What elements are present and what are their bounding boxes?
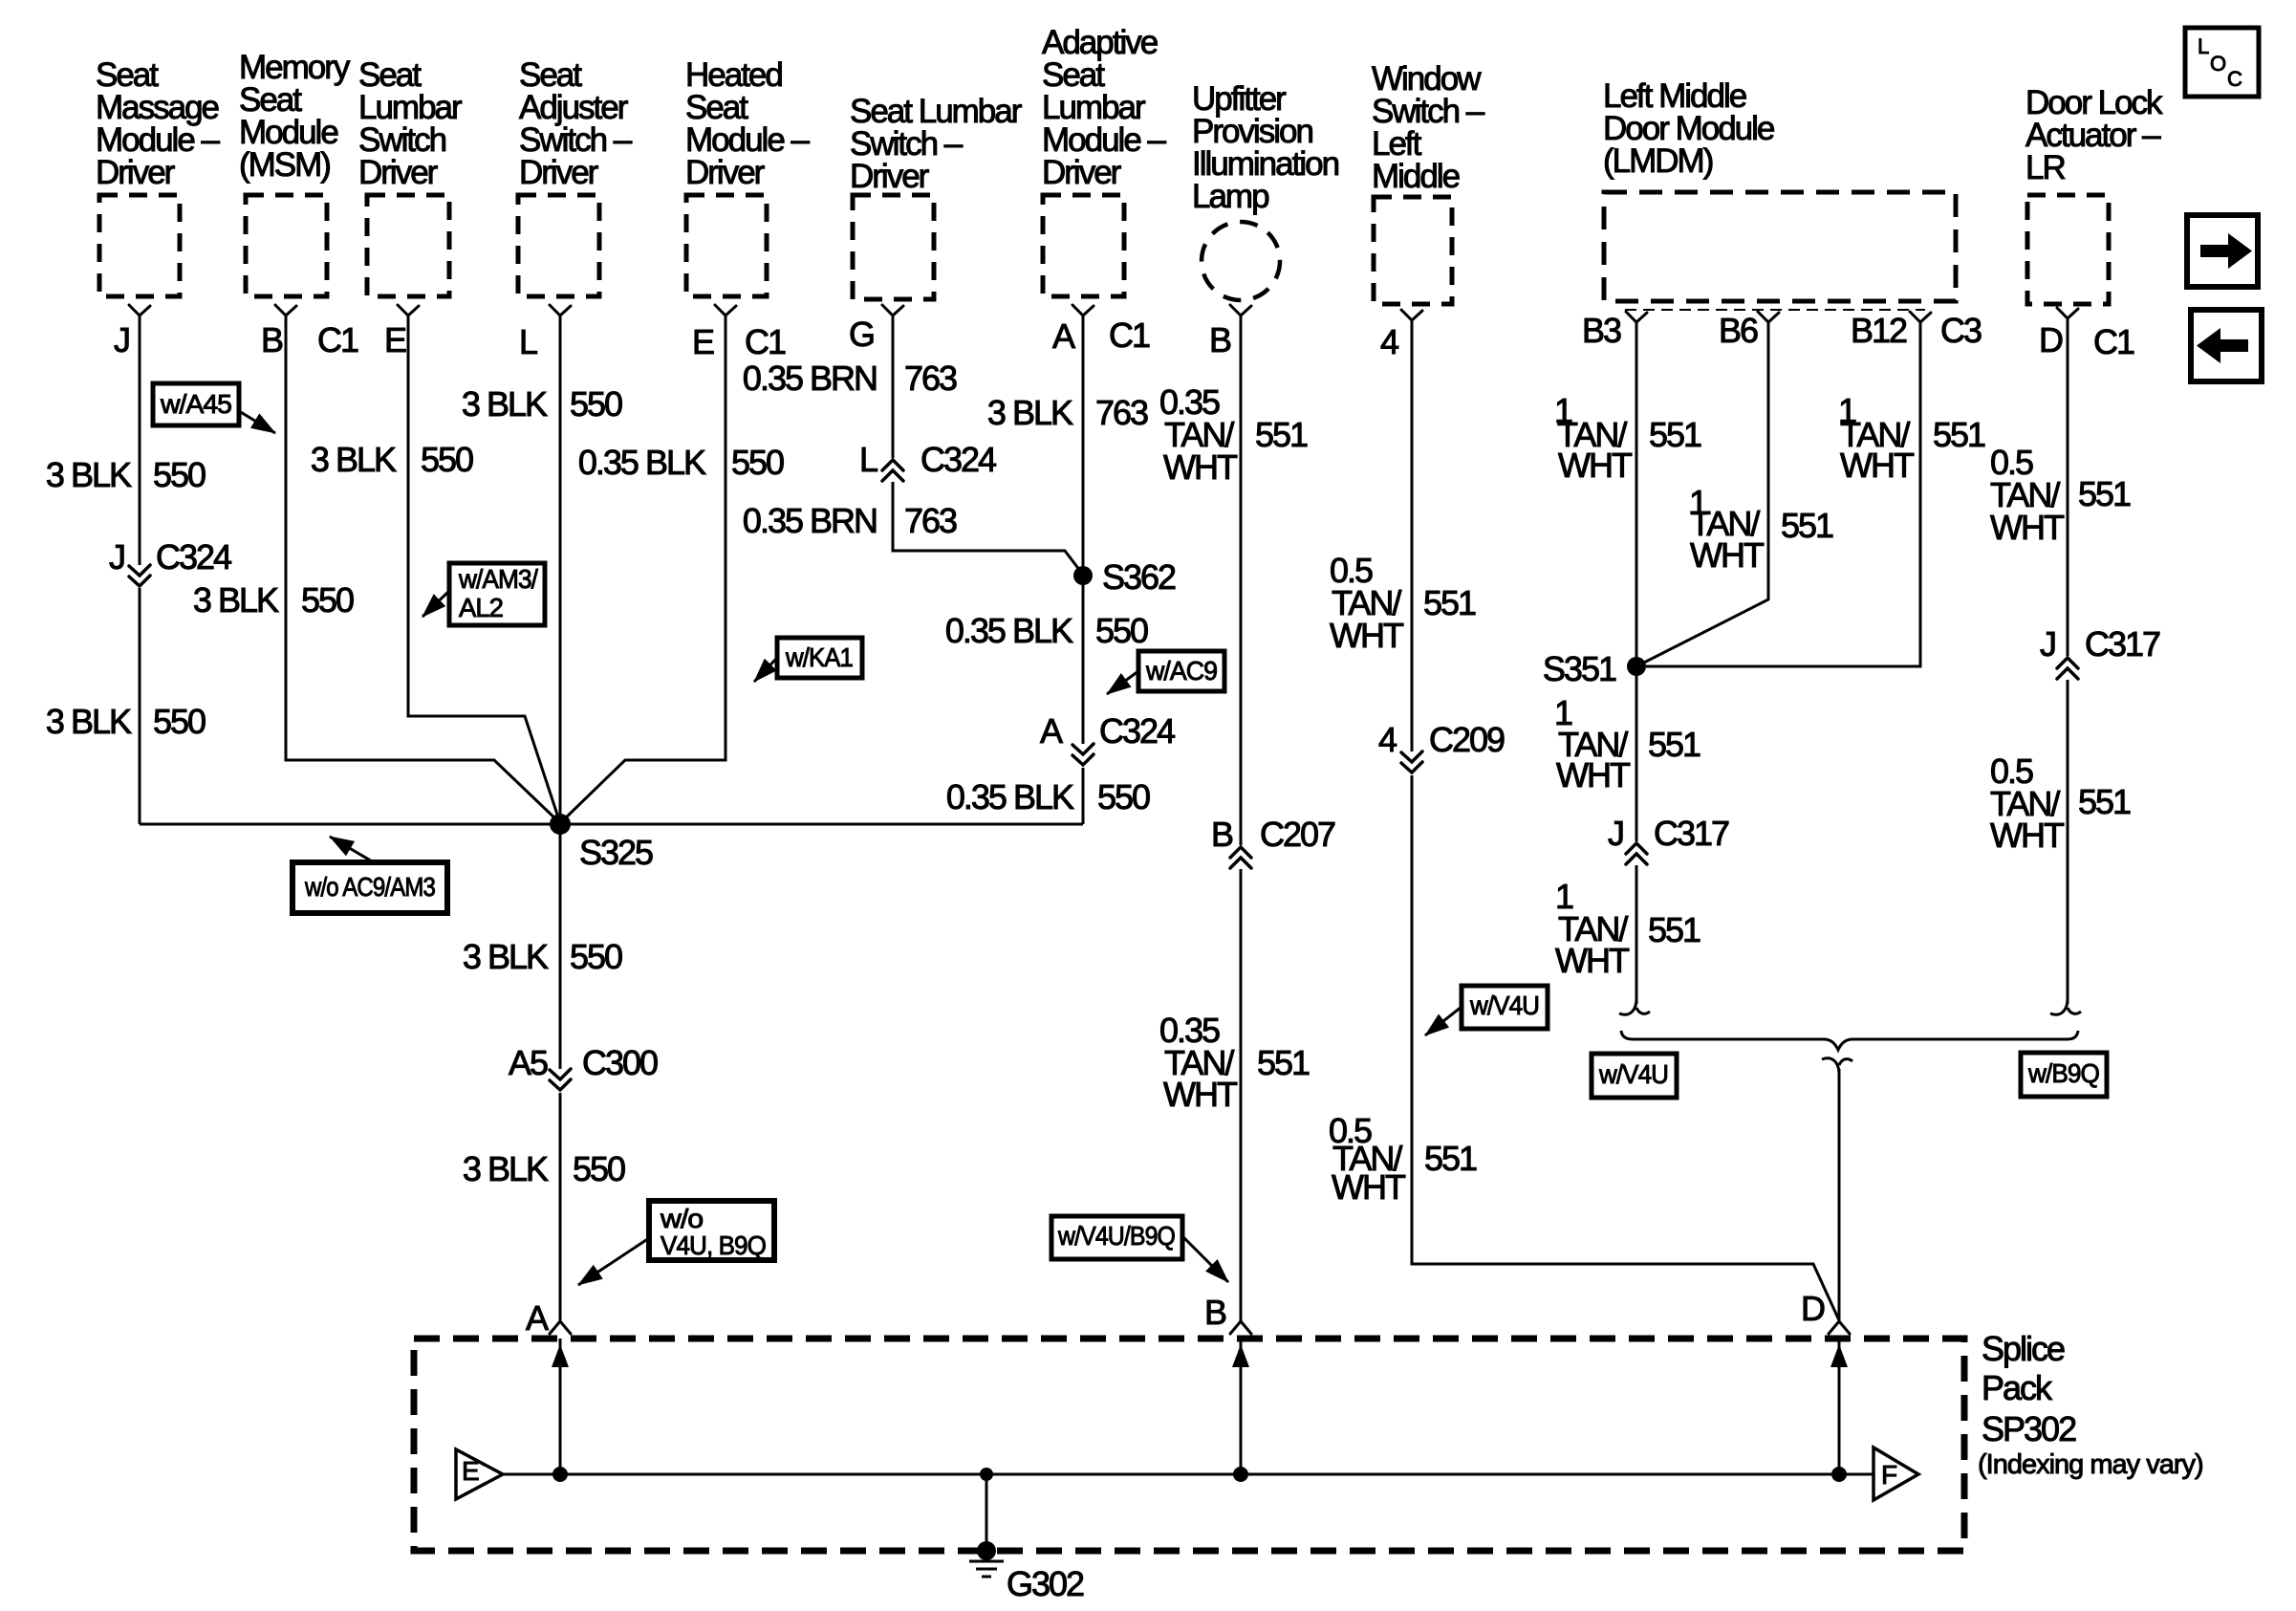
label: 3 BLK 550 (adjuster) xyxy=(462,384,622,424)
label: pin A splice pack xyxy=(526,1298,549,1338)
component: Splice Pack SP302 (dashed box) xyxy=(414,1339,1964,1551)
label: pin 4 (window switch) xyxy=(1380,322,1398,361)
connector C207 pin B (inline, up) xyxy=(1230,847,1251,868)
label: pin C3 xyxy=(1940,311,1982,350)
wire: BLK 550 below C300 to splice pack pin A xyxy=(559,1093,562,1321)
wire: Window Switch 4 down segment xyxy=(1411,320,1414,751)
svg-text:w/B9Q: w/B9Q xyxy=(2027,1058,2099,1088)
label: 3 BLK 550 (massage upper) xyxy=(46,455,206,494)
label: Left Middle Door Module (LMDM) header xyxy=(1603,77,1774,180)
svg-text:WHT: WHT xyxy=(1840,446,1915,485)
component: Memory Seat Module MSM (dashed box) xyxy=(246,195,327,296)
svg-text:WHT: WHT xyxy=(1556,755,1631,795)
note box w/B9Q under brace xyxy=(2021,1053,2107,1097)
svg-text:WHT: WHT xyxy=(1690,535,1765,575)
pin L of Seat Adjuster Switch xyxy=(550,305,571,316)
svg-text:3 BLK: 3 BLK xyxy=(463,1149,549,1188)
svg-text:w/o AC9/AM3: w/o AC9/AM3 xyxy=(304,872,435,902)
note box w/KA1 with arrow to heated seat wire xyxy=(754,638,862,682)
symbol: left-arrow navigation box xyxy=(2191,310,2262,381)
svg-text:C1: C1 xyxy=(1109,316,1150,355)
wire: ground bus S325 horizontal xyxy=(140,823,1083,826)
label: Splice Pack SP302 xyxy=(1978,1329,2203,1480)
svg-text:Driver: Driver xyxy=(1042,154,1122,191)
pin D/C1 of Door Lock Actuator xyxy=(2057,308,2078,318)
svg-text:Middle: Middle xyxy=(1372,158,1460,195)
component: Seat Lumbar Switch Driver (dashed box) xyxy=(367,195,449,296)
svg-text:B: B xyxy=(1211,815,1233,854)
wire: Seat Lumbar Switch E down segment to S325 xyxy=(408,316,560,823)
label: 0.35 BLK 550 (above bus) xyxy=(946,777,1150,816)
wire: B6 down segment to S351 xyxy=(1636,322,1768,666)
node: bus junction at pin A xyxy=(552,1467,568,1482)
label: pin C1 (MSM) xyxy=(317,320,358,359)
svg-text:550: 550 xyxy=(421,440,473,479)
connector C324 pin J (inline, down) xyxy=(129,565,150,586)
node: bus junction at pin D xyxy=(1831,1467,1847,1482)
wire: pin A into splice pack xyxy=(552,1339,569,1474)
label: pin C1 (door lock) xyxy=(2093,322,2134,361)
wire: Upfitter lamp B down segment xyxy=(1240,316,1243,845)
svg-text:WHT: WHT xyxy=(1558,446,1633,485)
svg-text:WHT: WHT xyxy=(1332,1167,1406,1207)
svg-text:551: 551 xyxy=(1933,415,1985,454)
wire: TAN/WHT below C317 with continuation hook xyxy=(1619,865,1650,1014)
ground G302 xyxy=(969,1541,1084,1603)
svg-text:C3: C3 xyxy=(1940,311,1982,350)
wire: Adaptive A down segment xyxy=(1082,316,1085,744)
label: connector C209 pin 4 xyxy=(1378,720,1505,759)
label: pin B3 xyxy=(1582,311,1621,350)
component: Seat Lumbar Switch - Driver (dashed box) xyxy=(853,195,934,299)
svg-text:D: D xyxy=(2039,320,2063,359)
pin E of Seat Lumbar Switch Driver xyxy=(398,305,419,316)
label: 0.35 TAN/WHT 551 (lamp upper) xyxy=(1159,382,1308,487)
label: 3 BLK 550 (massage lower) xyxy=(46,702,206,741)
wire: Seat Lumbar G down segment xyxy=(892,316,895,458)
splice S362 xyxy=(1073,557,1176,597)
label: 0.35 BLK 550 (below S362) xyxy=(945,611,1148,650)
component: Heated Seat Module - Driver (dashed box) xyxy=(686,195,767,296)
svg-text:551: 551 xyxy=(1648,725,1700,764)
svg-text:SP302: SP302 xyxy=(1982,1409,2076,1448)
label: connector C317 pin J (LMDM) xyxy=(1608,814,1729,853)
svg-text:(LMDM): (LMDM) xyxy=(1603,142,1713,180)
component: Adaptive Seat Lumbar Module - Driver (dashed box) xyxy=(1043,195,1124,296)
svg-text:550: 550 xyxy=(153,455,206,494)
svg-text:E: E xyxy=(384,320,406,359)
wire: BLK 550 below S325 xyxy=(559,824,562,1069)
node: bus junction at pin B xyxy=(1233,1467,1248,1482)
pin D of splice pack SP302 xyxy=(1829,1321,1850,1334)
note box w/V4U with arrow to window switch wire xyxy=(1425,986,1548,1035)
svg-text:551: 551 xyxy=(1257,1043,1310,1082)
wire: J segment below C324 to ground bus xyxy=(139,588,141,824)
component: Window Switch - Left Middle (dashed box) xyxy=(1374,197,1452,304)
label: 3 BLK 550 (MSM) xyxy=(193,580,354,620)
label: pin D xyxy=(2039,320,2063,359)
svg-text:w/KA1: w/KA1 xyxy=(785,642,853,672)
wire: B3 down segment to S351 xyxy=(1635,322,1638,666)
svg-text:C: C xyxy=(2227,67,2242,91)
label: Seat Lumbar Switch Driver header xyxy=(358,56,463,191)
svg-text:J: J xyxy=(2040,624,2055,664)
svg-text:WHT: WHT xyxy=(1163,1075,1238,1114)
connector C209 pin 4 (inline, down) xyxy=(1401,751,1422,773)
connector C317 pin J (inline, up) xyxy=(1626,843,1647,864)
label: pin E (heated seat) xyxy=(692,322,714,361)
svg-text:A: A xyxy=(1040,711,1063,751)
svg-text:551: 551 xyxy=(1423,583,1476,622)
label: 0.35 TAN/WHT 551 (lamp lower) xyxy=(1159,1011,1310,1114)
svg-text:B: B xyxy=(1209,320,1231,359)
label: pin G xyxy=(849,315,874,354)
svg-text:C324: C324 xyxy=(1099,711,1175,751)
svg-text:L: L xyxy=(2198,34,2209,58)
svg-text:B6: B6 xyxy=(1719,311,1758,350)
wire: pin B into splice pack xyxy=(1232,1339,1249,1474)
label: connector C324 pin L xyxy=(859,440,996,479)
label: connector C317 pin J (door lock) xyxy=(2040,624,2160,664)
wire: combined TAN/WHT drop to splice pack pin D with hook xyxy=(1822,1058,1852,1320)
svg-text:550: 550 xyxy=(731,443,784,482)
label: Upfitter Provision Illumination Lamp header xyxy=(1192,80,1339,215)
svg-text:w/A45: w/A45 xyxy=(160,389,231,419)
wire: Door Lock D down segment xyxy=(2067,318,2069,656)
wire: splice pack internal bus xyxy=(503,1473,1874,1476)
component: Door Lock Actuator - LR (dashed box) xyxy=(2027,195,2109,304)
svg-text:WHT: WHT xyxy=(1990,508,2065,547)
component: Upfitter Provision Illumination Lamp (dashed circle) xyxy=(1202,222,1280,300)
pin E/C1 of Heated Seat Module xyxy=(715,305,736,316)
splice S351 xyxy=(1543,649,1646,688)
label: pin D splice pack xyxy=(1801,1289,1825,1328)
svg-text:w/o: w/o xyxy=(660,1204,704,1233)
label: 0.5 TAN/WHT 551 (window lower) xyxy=(1329,1111,1477,1207)
label: connector C300 pin A5 xyxy=(509,1043,658,1082)
label: pin A (adaptive) xyxy=(1052,316,1075,356)
svg-text:C1: C1 xyxy=(2093,322,2134,361)
svg-text:763: 763 xyxy=(904,501,957,540)
svg-text:S362: S362 xyxy=(1102,557,1176,597)
svg-text:550: 550 xyxy=(573,1149,625,1188)
label: pin J xyxy=(114,320,129,359)
svg-text:S351: S351 xyxy=(1543,649,1616,688)
svg-text:C1: C1 xyxy=(745,322,786,361)
label: 1 TAN/WHT 551 (below S351) xyxy=(1554,693,1700,795)
svg-text:763: 763 xyxy=(904,359,957,398)
svg-text:O: O xyxy=(2210,52,2226,76)
wire: B12 down segment to S351 xyxy=(1646,322,1920,666)
svg-text:L: L xyxy=(859,440,877,479)
svg-text:550: 550 xyxy=(570,937,622,976)
label: 0.5 TAN/WHT 551 (door lock upper) xyxy=(1990,443,2131,547)
svg-text:Pack: Pack xyxy=(1982,1368,2053,1407)
wire: J Seat Massage down segment xyxy=(139,316,141,565)
svg-text:550: 550 xyxy=(153,702,206,741)
svg-text:B: B xyxy=(261,320,283,359)
pin G of Seat Lumbar Switch - Driver xyxy=(882,305,903,316)
svg-text:WHT: WHT xyxy=(1163,447,1238,487)
label: 0.35 BRN 763 (lower) xyxy=(743,501,957,540)
label: 3 BLK 550 (below S325) xyxy=(463,937,622,976)
label: pin C1 (heated seat) xyxy=(745,322,786,361)
wire: A segment below C324 joining S325 bus xyxy=(1082,768,1085,824)
wire: TAN/WHT below C317 door lock with continuation hook xyxy=(2050,680,2081,1014)
symbol: right-arrow navigation box xyxy=(2187,215,2258,287)
label: 1 TAN/WHT 551 (B3 upper) xyxy=(1554,391,1701,485)
label: Heated Seat Module - Driver header xyxy=(685,56,811,191)
svg-text:C1: C1 xyxy=(317,320,358,359)
svg-text:G302: G302 xyxy=(1007,1564,1084,1603)
node: bus tap to ground xyxy=(980,1468,993,1481)
wire: MSM B down segment then to S325 xyxy=(286,316,560,823)
svg-text:0.35 BLK: 0.35 BLK xyxy=(578,443,706,482)
svg-text:Driver: Driver xyxy=(685,154,766,191)
pin B/C1 of Memory Seat Module xyxy=(275,305,296,316)
wire: lamp wire below C207 to splice pack pin B xyxy=(1240,869,1243,1321)
svg-text:0.35 BLK: 0.35 BLK xyxy=(945,611,1073,650)
label: 0.35 BRN 763 (upper) xyxy=(743,359,957,398)
svg-text:F: F xyxy=(1881,1460,1897,1490)
label: pin B xyxy=(261,320,283,359)
svg-text:4: 4 xyxy=(1378,720,1397,759)
wire: G segment below C324 to S362 xyxy=(893,482,1083,575)
svg-text:w/AC9: w/AC9 xyxy=(1145,656,1217,686)
svg-text:763: 763 xyxy=(1095,393,1148,432)
pin J of Seat Massage Module xyxy=(129,305,150,316)
label: 1 TAN/WHT 551 (B6) xyxy=(1689,483,1833,575)
wire: LMDM connector face (thin dashed line) xyxy=(1625,309,1925,311)
svg-text:C300: C300 xyxy=(582,1043,658,1082)
label: Window Switch - Left Middle header xyxy=(1372,60,1485,195)
wire: Heated Seat E down segment to S325 xyxy=(560,316,726,823)
svg-text:E: E xyxy=(462,1456,480,1486)
component: Seat Adjuster Switch - Driver (dashed box) xyxy=(518,195,599,296)
svg-text:4: 4 xyxy=(1380,322,1398,361)
svg-text:Lamp: Lamp xyxy=(1192,178,1268,215)
svg-text:0.35 BRN: 0.35 BRN xyxy=(743,359,877,398)
label: 3 BLK 763 (adaptive) xyxy=(987,393,1148,432)
symbol: splice pack terminal E (triangle) xyxy=(456,1449,503,1499)
symbol: splice pack terminal F (triangle) xyxy=(1874,1448,1918,1500)
pin B12/C3 of LMDM xyxy=(1910,312,1931,322)
connector C300 pin A5 (inline, down) xyxy=(550,1069,571,1090)
svg-text:A5: A5 xyxy=(509,1043,548,1082)
svg-text:551: 551 xyxy=(2078,782,2131,821)
note box w/V4U/B9Q with arrow to pin B wire xyxy=(1051,1216,1228,1282)
svg-text:C209: C209 xyxy=(1429,720,1505,759)
wire: B3 below S351 segment xyxy=(1635,666,1638,841)
svg-text:551: 551 xyxy=(1255,415,1308,454)
svg-text:(Indexing may vary): (Indexing may vary) xyxy=(1978,1449,2203,1480)
pin B of splice pack SP302 xyxy=(1230,1321,1251,1334)
wire: ground drop xyxy=(986,1474,988,1551)
svg-text:D: D xyxy=(1801,1289,1825,1328)
svg-text:550: 550 xyxy=(1095,611,1148,650)
label: Door Lock Actuator - LR header xyxy=(2025,84,2163,186)
svg-text:3 BLK: 3 BLK xyxy=(987,393,1073,432)
svg-text:550: 550 xyxy=(570,384,622,424)
svg-text:C207: C207 xyxy=(1260,815,1335,854)
svg-text:3 BLK: 3 BLK xyxy=(462,384,548,424)
wire: pin D into splice pack xyxy=(1830,1339,1848,1474)
svg-text:A: A xyxy=(1052,316,1075,356)
pin B of Upfitter Lamp xyxy=(1230,305,1251,316)
pin 4 of Window Switch xyxy=(1401,310,1422,320)
svg-text:Splice: Splice xyxy=(1982,1329,2065,1368)
svg-text:Driver: Driver xyxy=(850,158,930,195)
label: 3 BLK 550 (below C300) xyxy=(463,1149,625,1188)
svg-text:B: B xyxy=(1204,1293,1226,1332)
svg-text:C317: C317 xyxy=(1654,814,1729,853)
label: 1 TAN/WHT 551 (B12) xyxy=(1838,391,1985,485)
svg-text:3 BLK: 3 BLK xyxy=(46,702,132,741)
splice S325 xyxy=(550,814,653,872)
symbol: LOC reference box xyxy=(2185,28,2259,97)
svg-text:AL2: AL2 xyxy=(459,593,503,622)
svg-text:B3: B3 xyxy=(1582,311,1621,350)
connector C317 pin J door lock (inline, up) xyxy=(2057,658,2078,679)
svg-text:w/V4U: w/V4U xyxy=(1598,1059,1668,1089)
svg-text:3 BLK: 3 BLK xyxy=(463,937,549,976)
svg-text:WHT: WHT xyxy=(1990,816,2065,855)
svg-text:3 BLK: 3 BLK xyxy=(46,455,132,494)
label: 3 BLK 550 (lumbar switch driver) xyxy=(311,440,473,479)
svg-text:A: A xyxy=(526,1298,549,1338)
svg-text:J: J xyxy=(109,537,124,577)
label: pin B (lamp) xyxy=(1209,320,1231,359)
label: 1 TAN/WHT 551 (below C317) xyxy=(1555,877,1700,980)
svg-text:V4U, B9Q: V4U, B9Q xyxy=(661,1230,766,1260)
note box w/A45 with arrow to MSM wire xyxy=(153,383,275,433)
svg-text:WHT: WHT xyxy=(1555,941,1630,980)
label: 0.35 BLK 550 (heated seat) xyxy=(578,443,784,482)
svg-text:w/AM3/: w/AM3/ xyxy=(458,564,538,594)
svg-text:C317: C317 xyxy=(2085,624,2160,664)
label: Seat Massage Module - Driver header xyxy=(96,56,221,191)
label: Memory Seat Module (MSM) header xyxy=(239,49,351,184)
label: pin C1 (adaptive) xyxy=(1109,316,1150,355)
label: 0.5 TAN/WHT 551 (window upper) xyxy=(1330,551,1476,655)
note box w/V4U under brace xyxy=(1592,1054,1677,1098)
svg-text:C324: C324 xyxy=(921,440,996,479)
label: Adaptive Seat Lumbar Module - Driver header xyxy=(1042,24,1167,191)
svg-text:551: 551 xyxy=(1781,506,1833,545)
label: Seat Adjuster Switch - Driver header xyxy=(519,56,633,191)
svg-text:0.35 BLK: 0.35 BLK xyxy=(946,777,1074,816)
pin A of splice pack SP302 xyxy=(550,1321,571,1334)
svg-text:Driver: Driver xyxy=(519,154,599,191)
svg-text:551: 551 xyxy=(1424,1139,1477,1178)
svg-text:550: 550 xyxy=(301,580,354,620)
component: Seat Massage Module - Driver (dashed box) xyxy=(99,195,180,296)
label: pin B6 xyxy=(1719,311,1758,350)
wire: Seat Adjuster L down segment to S325 xyxy=(559,316,562,824)
svg-text:S325: S325 xyxy=(579,833,653,872)
note box w/o AC9/AM3 with arrow to ground bus xyxy=(292,837,447,913)
label: connector C324 pin A xyxy=(1040,711,1175,751)
svg-text:Driver: Driver xyxy=(96,154,176,191)
svg-text:551: 551 xyxy=(1648,910,1700,949)
wire: window wire below C209 across to pin D xyxy=(1412,775,1839,1320)
note box w/AM3/AL2 with arrow to lumbar switch wire xyxy=(422,563,545,625)
svg-text:(MSM): (MSM) xyxy=(239,146,330,184)
svg-text:B12: B12 xyxy=(1851,311,1907,350)
svg-text:E: E xyxy=(692,322,714,361)
component: Left Middle Door Module LMDM (dashed box) xyxy=(1604,192,1956,301)
svg-text:550: 550 xyxy=(1097,777,1150,816)
label: pin E (lumbar switch driver) xyxy=(384,320,406,359)
pin B6 of LMDM xyxy=(1758,312,1779,322)
note box w/AC9 with arrow to adaptive wire xyxy=(1107,651,1224,694)
note box w/o V4U, B9Q with arrow to pin A wire xyxy=(578,1201,774,1285)
svg-text:J: J xyxy=(1608,814,1623,853)
svg-text:w/V4U/B9Q: w/V4U/B9Q xyxy=(1057,1221,1175,1251)
label: pin B splice pack xyxy=(1204,1293,1226,1332)
svg-text:551: 551 xyxy=(1649,415,1701,454)
label: pin L xyxy=(519,322,537,361)
svg-text:w/V4U: w/V4U xyxy=(1469,991,1539,1020)
svg-text:3 BLK: 3 BLK xyxy=(193,580,279,620)
svg-text:J: J xyxy=(114,320,129,359)
svg-text:C324: C324 xyxy=(156,537,231,577)
svg-text:0.35 BRN: 0.35 BRN xyxy=(743,501,877,540)
svg-text:WHT: WHT xyxy=(1330,616,1404,655)
svg-text:G: G xyxy=(849,315,874,354)
label: Seat Lumbar Switch - Driver header xyxy=(850,93,1023,195)
pin B3 of LMDM xyxy=(1626,312,1647,322)
pin A/C1 of Adaptive Seat Lumbar Module xyxy=(1072,305,1094,316)
label: pin B12 xyxy=(1851,311,1907,350)
label: 0.5 TAN/WHT 551 (door lock lower) xyxy=(1990,751,2131,855)
svg-text:3 BLK: 3 BLK xyxy=(311,440,397,479)
label: connector C207 pin B xyxy=(1211,815,1335,854)
label: connector C324 pin J xyxy=(109,537,231,577)
connector C324 pin L (inline, up) xyxy=(882,460,903,481)
node: gathering brace for TAN/WHT wires xyxy=(1621,1031,2078,1050)
svg-text:Driver: Driver xyxy=(358,154,439,191)
connector C324 pin A (inline, down) xyxy=(1072,744,1094,765)
svg-text:551: 551 xyxy=(2078,474,2131,513)
svg-text:L: L xyxy=(519,322,537,361)
svg-text:LR: LR xyxy=(2025,149,2065,186)
